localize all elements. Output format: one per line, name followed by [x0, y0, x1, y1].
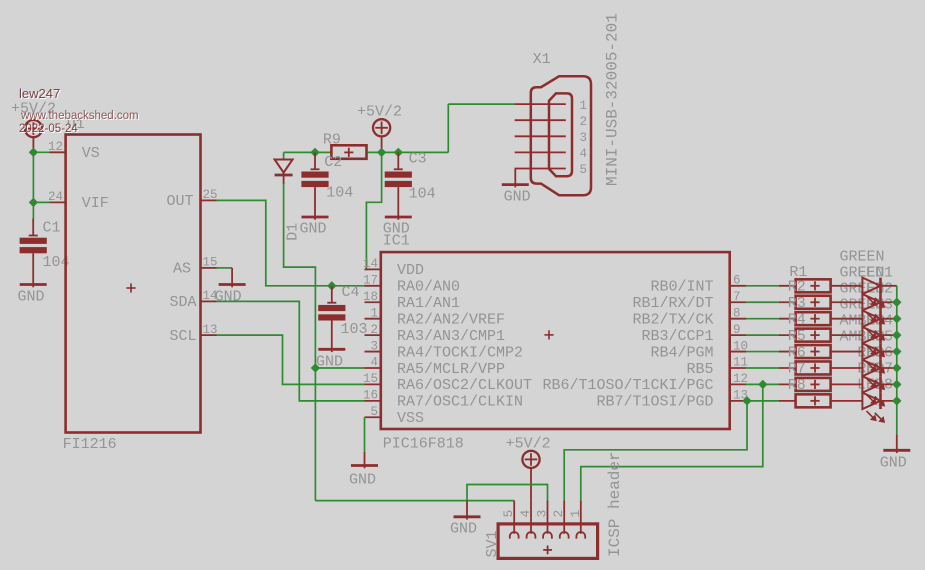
svg-text:1: 1	[568, 510, 583, 518]
svg-text:GND: GND	[450, 521, 477, 538]
pin 8 RB2/TX/CK	[730, 318, 746, 320]
node VS junction	[29, 148, 38, 157]
svg-text:MINI-USB-32005-201: MINI-USB-32005-201	[604, 13, 622, 186]
pin 14 SDA	[201, 300, 217, 302]
ground below C2	[314, 187, 316, 220]
ground below C3	[397, 187, 399, 220]
svg-text:6: 6	[733, 274, 741, 288]
pin 11 RB5	[730, 367, 746, 369]
node RA5 MCLR junction	[311, 363, 320, 372]
svg-text:5: 5	[370, 405, 378, 419]
wire VIF net	[33, 201, 49, 203]
svg-text:10: 10	[733, 339, 748, 353]
ground below C1	[32, 253, 34, 287]
diode D1	[283, 152, 285, 159]
pin 5 GND of X1	[515, 168, 566, 170]
wire VDD branch	[365, 152, 382, 269]
svg-text:VS: VS	[82, 145, 100, 162]
pin 2 of SV1	[563, 501, 565, 534]
tuner module U1 FI1216 box	[66, 135, 201, 433]
wire +5V rail	[284, 151, 332, 153]
LED1	[831, 285, 863, 287]
svg-text:GND: GND	[18, 288, 45, 305]
pin 1 VBUS of X1	[515, 103, 566, 105]
wire D1 cathode to MCLR	[284, 184, 316, 501]
wire AS to ground	[217, 267, 233, 269]
svg-text:12: 12	[48, 140, 63, 154]
LED4	[831, 334, 863, 336]
resistor R6	[746, 367, 779, 369]
svg-text:+5V/2: +5V/2	[357, 103, 402, 120]
wire VSS to ground	[364, 417, 366, 452]
pin 2 RA3/AN3/CMP1	[365, 334, 381, 336]
svg-text:4: 4	[518, 510, 533, 518]
supply +5V P1	[25, 120, 42, 137]
capacitor C1	[32, 219, 34, 236]
wire ICSP ground net	[467, 485, 548, 501]
pin 12 RB6/T1OSO/T1CKI/PGC	[730, 383, 746, 385]
pin 4 of X1	[515, 151, 566, 153]
wire VBUS from USB	[447, 104, 449, 152]
ground at X1 pin 5	[514, 169, 516, 182]
svg-text:RA2/AN2/VREF: RA2/AN2/VREF	[397, 311, 505, 328]
pin 25 OUT	[201, 199, 217, 201]
svg-text:4: 4	[370, 356, 378, 370]
LED2	[831, 301, 863, 303]
node RB6 junction	[758, 380, 767, 389]
svg-text:R2: R2	[788, 279, 806, 296]
pin 17 RA0/AN0	[365, 285, 381, 287]
node cathode rail junction	[892, 347, 901, 356]
resistor R8	[746, 400, 779, 402]
svg-text:RA4/TOCKI/CMP2: RA4/TOCKI/CMP2	[397, 344, 523, 361]
svg-text:R7: R7	[788, 361, 806, 378]
svg-text:18: 18	[363, 290, 378, 304]
LED3	[831, 318, 863, 320]
wire SDA to RA7	[217, 301, 365, 400]
pin 1 RA2/AN2/VREF	[365, 318, 381, 320]
svg-text:AS: AS	[173, 261, 191, 278]
svg-text:15: 15	[363, 372, 378, 386]
svg-text:1: 1	[580, 99, 588, 113]
svg-text:RB3/CCP1: RB3/CCP1	[641, 328, 713, 345]
svg-text:R3: R3	[788, 295, 806, 312]
svg-text:RB0/INT: RB0/INT	[650, 279, 713, 296]
svg-text:RA1/AN1: RA1/AN1	[397, 295, 460, 312]
svg-text:C4: C4	[342, 284, 360, 301]
svg-text:RB2/TX/CK: RB2/TX/CK	[632, 311, 713, 328]
svg-text:14: 14	[363, 257, 378, 271]
svg-text:13: 13	[203, 323, 218, 337]
pin 1 of SV1	[580, 501, 582, 534]
svg-text:GND: GND	[300, 221, 327, 238]
node cathode rail junction	[892, 314, 901, 323]
ground below VSS	[364, 452, 366, 468]
svg-text:3: 3	[535, 510, 550, 518]
LED6	[831, 367, 863, 369]
pin 15 AS	[201, 267, 217, 269]
pin 10 RB4/PGM	[730, 351, 746, 353]
pin 12 VS	[50, 151, 66, 153]
pin 13 RB7/T1OSI/PGD	[730, 400, 746, 402]
svg-text:GND: GND	[880, 454, 907, 471]
wire VS net	[33, 151, 49, 153]
svg-text:15: 15	[203, 256, 218, 270]
pin 3 of X1	[515, 135, 566, 137]
pin 4 RA5/MCLR/VPP	[365, 367, 381, 369]
svg-text:4: 4	[580, 147, 588, 161]
svg-text:R8: R8	[788, 377, 806, 394]
svg-text:12: 12	[733, 372, 748, 386]
svg-text:3: 3	[370, 339, 378, 353]
svg-text:SV1: SV1	[484, 530, 501, 557]
svg-text:GREEN: GREEN	[839, 248, 884, 265]
svg-text:OUT: OUT	[166, 193, 193, 210]
annotation 2022-05-24	[19, 123, 78, 135]
svg-text:C2: C2	[324, 154, 342, 171]
svg-text:RB1/RX/DT: RB1/RX/DT	[632, 295, 713, 312]
wire PGD RB7 to ICSP pin2	[564, 401, 747, 501]
node cathode rail junction	[892, 380, 901, 389]
pin 24 VIF	[50, 201, 66, 203]
svg-text:VDD: VDD	[397, 262, 424, 279]
resistor R9	[331, 145, 366, 159]
svg-text:GND: GND	[349, 472, 376, 489]
svg-text:104: 104	[409, 185, 436, 202]
pin 6 RB0/INT	[730, 285, 746, 287]
pin 3 RA4/TOCKI/CMP2	[365, 351, 381, 353]
resistor R4	[746, 334, 779, 336]
pin 2 of X1	[515, 119, 566, 121]
pin 9 RB3/CCP1	[730, 334, 746, 336]
svg-text:25: 25	[203, 188, 218, 202]
wire MCLR to RA5 pin	[315, 367, 364, 369]
svg-text:ICSP header: ICSP header	[606, 451, 624, 557]
svg-text:16: 16	[363, 389, 378, 403]
wire LED cathode rail	[896, 286, 898, 435]
svg-text:RA6/OSC2/CLKOUT: RA6/OSC2/CLKOUT	[397, 377, 532, 394]
capacitor C3	[397, 152, 399, 169]
header SV1 ICSP box	[498, 524, 597, 559]
svg-text:24: 24	[48, 190, 63, 204]
svg-text:9: 9	[733, 323, 741, 337]
pin 3 of SV1	[547, 501, 549, 534]
svg-text:C3: C3	[409, 151, 427, 168]
svg-text:RB6/T1OSO/T1CKI/PGC: RB6/T1OSO/T1CKI/PGC	[542, 377, 713, 394]
pin 5 VSS	[365, 416, 381, 418]
capacitor C4	[331, 286, 333, 303]
node C3 junction	[394, 148, 403, 157]
wire PGC RB6 to ICSP pin1	[581, 384, 763, 500]
supply +5V P2	[373, 119, 390, 136]
ground below C4	[331, 321, 333, 353]
node RB7 junction	[742, 396, 751, 405]
annotation lew247	[19, 86, 60, 101]
pin 14 VDD	[365, 268, 381, 270]
svg-text:SCL: SCL	[169, 328, 196, 345]
svg-text:R6: R6	[788, 344, 806, 361]
svg-text:GND: GND	[504, 189, 531, 206]
svg-text:SDA: SDA	[169, 294, 196, 311]
svg-text:RA7/OSC1/CLKIN: RA7/OSC1/CLKIN	[397, 394, 523, 411]
svg-text:RA5/MCLR/VPP: RA5/MCLR/VPP	[397, 361, 505, 378]
svg-text:2: 2	[370, 323, 378, 337]
ground at ICSP	[466, 501, 468, 520]
node C4 junction	[327, 281, 336, 290]
svg-text:8: 8	[733, 306, 741, 320]
svg-text:1: 1	[370, 306, 378, 320]
svg-text:+5V/2: +5V/2	[506, 435, 551, 452]
svg-text:GND: GND	[215, 288, 242, 305]
LED5	[831, 351, 863, 353]
node cathode rail junction	[892, 396, 901, 405]
svg-text:R5: R5	[788, 328, 806, 345]
node cathode rail junction	[892, 330, 901, 339]
node cathode rail junction	[892, 363, 901, 372]
svg-text:103: 103	[341, 321, 368, 338]
svg-text:X1: X1	[533, 51, 551, 68]
svg-text:2: 2	[580, 115, 588, 129]
svg-text:VSS: VSS	[397, 410, 424, 427]
node R9 left junction	[310, 148, 319, 157]
svg-text:FI1216: FI1216	[63, 436, 117, 453]
svg-text:RB7/T1OSI/PGD: RB7/T1OSI/PGD	[596, 394, 713, 411]
svg-text:PIC16F818: PIC16F818	[383, 435, 464, 452]
resistor R3	[746, 318, 779, 320]
wire SCL to RA6	[217, 335, 365, 384]
svg-text:11: 11	[733, 356, 748, 370]
pin 18 RA1/AN1	[365, 301, 381, 303]
wire +5V to ICSP pin4	[530, 468, 532, 500]
resistor R2	[746, 301, 779, 303]
pin 15 RA6/OSC2/CLKOUT	[365, 383, 381, 385]
svg-text:R4: R4	[788, 311, 806, 328]
pin 13 SCL	[201, 334, 217, 336]
svg-text:17: 17	[363, 274, 378, 288]
svg-text:C1: C1	[43, 220, 61, 237]
svg-text:R9: R9	[323, 132, 341, 149]
resistor R7	[746, 383, 779, 385]
pin 4 of SV1	[530, 501, 532, 534]
microcontroller IC1 PIC16F818 box	[381, 252, 730, 429]
ground at AS pin	[231, 268, 233, 287]
svg-text:RB5: RB5	[686, 361, 713, 378]
svg-text:7: 7	[733, 290, 741, 304]
capacitor C2	[314, 152, 316, 169]
wire MCLR to ICSP pin5	[315, 500, 514, 502]
ground below LED rail	[896, 434, 898, 453]
wire OUT to RA0	[217, 200, 365, 285]
LED8	[831, 400, 863, 402]
node VIF junction	[29, 198, 38, 207]
resistor R1	[746, 285, 779, 287]
svg-text:RA3/AN3/CMP1: RA3/AN3/CMP1	[397, 328, 505, 345]
svg-text:2: 2	[551, 510, 566, 518]
svg-text:IC1: IC1	[383, 232, 410, 249]
pin 5 of SV1	[513, 501, 515, 534]
annotation www.thebackshed.com	[21, 110, 139, 122]
pin 7 RB1/RX/DT	[730, 301, 746, 303]
node cathode rail junction	[892, 298, 901, 307]
LED7	[831, 383, 863, 385]
pin 16 RA7/OSC1/CLKIN	[365, 400, 381, 402]
svg-text:VIF: VIF	[82, 195, 109, 212]
svg-text:RA0/AN0: RA0/AN0	[397, 279, 460, 296]
supply +5V P3	[522, 451, 539, 468]
svg-text:5: 5	[501, 510, 516, 518]
svg-text:104: 104	[326, 185, 353, 202]
node +5V junction	[377, 148, 386, 157]
svg-text:5: 5	[580, 163, 588, 177]
resistor R5	[746, 351, 779, 353]
svg-text:RB4/PGM: RB4/PGM	[650, 344, 713, 361]
svg-text:3: 3	[580, 131, 588, 145]
